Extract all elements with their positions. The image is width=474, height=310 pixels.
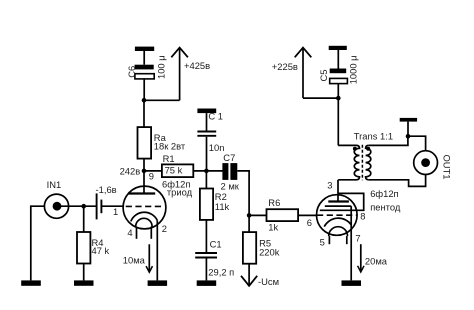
node junction secondary/OUT1 [406, 134, 411, 139]
ground (pentode cathode) [342, 280, 362, 286]
svg-text:1: 1 [113, 206, 118, 217]
svg-text:8: 8 [360, 210, 365, 221]
svg-text:6ф12п: 6ф12п [370, 188, 398, 199]
ground (triode cathode) [148, 280, 168, 286]
terminal bar C1 [197, 109, 216, 114]
wire secondary bottom to OUT1 shell [369, 175, 426, 187]
resistor Ra [138, 127, 152, 159]
svg-text:220k: 220k [259, 247, 280, 258]
terminal bar OUT top [400, 118, 417, 136]
resistor R1 75 k [162, 164, 193, 177]
triode grid (dashed) [126, 205, 163, 207]
pentode suppressor grid g3 [325, 205, 351, 207]
pentode heater dome [329, 227, 348, 245]
svg-text:-Uсм: -Uсм [258, 276, 279, 287]
terminal bar C5 [329, 46, 347, 50]
triode heater dome [136, 218, 152, 239]
triode U1a envelope [123, 186, 166, 229]
capacitor C6 electrolytic [135, 51, 155, 100]
svg-text:18к 2вт: 18к 2вт [154, 141, 186, 152]
pentode anode plate [328, 200, 349, 202]
svg-text:9: 9 [149, 171, 154, 182]
wire pentode anode lead [337, 180, 339, 202]
ground (IN1) [21, 280, 41, 285]
wire R2 to C1b [205, 220, 207, 252]
capacitor C1 10n [197, 113, 216, 171]
svg-text:100 μ: 100 μ [155, 55, 166, 79]
wire g3/cathode to ground [350, 206, 352, 280]
resistor R5 [243, 232, 256, 264]
label R2 11k [215, 191, 230, 212]
node 242в anode junction [120, 165, 147, 176]
svg-text:1k: 1k [268, 222, 278, 233]
node junction C5/+225в/transformer [336, 96, 341, 101]
svg-text:C 1: C 1 [208, 111, 223, 122]
power -Uсм arrow [241, 276, 279, 287]
svg-text:триод: триод [167, 186, 193, 197]
svg-text:пентод: пентод [370, 202, 401, 213]
wire junction to R2 [205, 171, 207, 189]
connector IN1 [44, 194, 68, 218]
wire junction to R5 [248, 215, 250, 232]
svg-text:IN1: IN1 [47, 179, 62, 190]
svg-text:20ма: 20ма [365, 256, 388, 267]
node junction C7/R5/R6 [247, 213, 252, 218]
wire anode lead [143, 171, 145, 194]
transformer core (dashed) [361, 145, 363, 180]
svg-text:-1,6в: -1,6в [96, 184, 117, 195]
label R4 47 k [92, 237, 110, 256]
pentode cathode arc [324, 218, 351, 226]
svg-text:10n: 10n [209, 142, 225, 153]
svg-text:11k: 11k [215, 201, 230, 212]
svg-text:29,2 п: 29,2 п [208, 267, 234, 278]
triode anode plate [128, 192, 155, 194]
svg-text:R6: R6 [268, 197, 280, 208]
svg-text:+225в: +225в [272, 61, 298, 72]
current arrow 10ма [123, 244, 153, 272]
svg-text:3: 3 [327, 179, 332, 190]
svg-text:1000 μ: 1000 μ [347, 55, 358, 84]
svg-text:Trans 1:1: Trans 1:1 [354, 131, 393, 142]
wire cap to triode grid pin 1 [101, 205, 123, 207]
wire Ra to supply node [143, 100, 145, 127]
wire IN1 shell to ground [31, 206, 45, 280]
ground (R2/C1) [197, 280, 217, 286]
wire R4 to ground [83, 264, 85, 281]
capacitor C1 29,2п [195, 253, 217, 280]
svg-text:+425в: +425в [184, 60, 210, 71]
wire C5 node to transformer primary [337, 98, 339, 145]
wire IN1 to coupling cap [57, 205, 96, 207]
svg-text:R1: R1 [163, 153, 175, 164]
pentode grid g1 (dashed) [317, 214, 357, 216]
label 6ф12п пентод [370, 188, 401, 213]
svg-text:242в: 242в [120, 165, 141, 176]
resistor R4 [77, 232, 90, 264]
transformer secondary winding [366, 145, 371, 179]
svg-text:C1: C1 [210, 239, 222, 250]
wire cathode to ground [156, 220, 158, 280]
svg-text:2 мк: 2 мк [221, 180, 240, 191]
svg-text:OUT1: OUT1 [442, 155, 453, 180]
label 6ф12п триод [162, 178, 193, 197]
wire anode junction to R1 [144, 170, 162, 172]
node junction R1/C1/R2/C7 [204, 169, 209, 174]
svg-text:C6: C6 [126, 66, 137, 78]
svg-text:75 k: 75 k [165, 164, 183, 175]
wire node to OUT1 tip [408, 136, 426, 151]
pentode U1b envelope [317, 195, 358, 236]
label Ra 18к 2вт [154, 132, 186, 152]
svg-text:C7: C7 [223, 152, 235, 163]
wire node to +425в arrow [144, 99, 180, 101]
svg-text:10ма: 10ма [123, 254, 146, 265]
connector OUT1 [414, 151, 438, 175]
resistor R2 [200, 189, 213, 220]
wire junction to R6 [249, 214, 266, 216]
wire junction to R4 [83, 206, 85, 232]
svg-text:7: 7 [355, 233, 360, 244]
node junction C6/Ra/+425в [142, 98, 147, 103]
svg-text:6: 6 [307, 217, 312, 228]
wire junction to Ra [143, 159, 145, 171]
capacitor C5 electrolytic [330, 50, 348, 98]
svg-text:5: 5 [320, 236, 325, 247]
capacitor C7 [222, 163, 237, 180]
svg-text:C5: C5 [318, 70, 329, 82]
pentode screen grid g2 tied to anode [320, 193, 364, 210]
wire R5 to -Uсм [248, 264, 250, 285]
svg-text:47 k: 47 k [92, 245, 110, 256]
transformer primary winding [338, 145, 359, 179]
triode cathode arc [131, 212, 158, 221]
label R5 220k [259, 237, 280, 257]
wire C7 to R5/R6 junction [237, 171, 249, 216]
resistor R6 [267, 209, 299, 221]
power +425в arrow [171, 48, 210, 101]
wire R6 to pentode grid pin 6 [298, 214, 317, 216]
node junction IN1/R4 [81, 204, 86, 209]
transformer polarity dot secondary [366, 147, 370, 151]
power +225в arrow [272, 48, 312, 99]
wire +225в to C5 node [303, 97, 338, 99]
svg-text:4: 4 [127, 227, 132, 238]
transformer polarity dot primary [353, 147, 357, 151]
terminal bar C6 [135, 47, 154, 51]
capacitor input coupling [97, 193, 102, 219]
wire secondary top to OUT1 node [369, 136, 408, 145]
svg-text:2: 2 [162, 223, 167, 234]
current arrow 20ма [358, 244, 388, 272]
ground (R4) [74, 280, 94, 285]
wire R1 to C7 [193, 170, 222, 172]
